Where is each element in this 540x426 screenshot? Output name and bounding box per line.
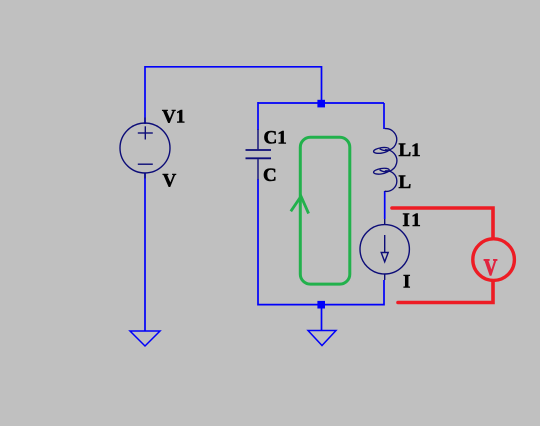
svg-text:C: C <box>263 165 277 186</box>
wire: loop rectangle left side lower (from capacitor) <box>258 179 384 305</box>
svg-text:C1: C1 <box>264 128 287 149</box>
svg-text:I: I <box>403 272 410 293</box>
green current loop annotation <box>300 137 350 284</box>
voltmeter circle <box>473 239 515 281</box>
wire: V1 bottom to ground <box>144 173 146 331</box>
current source I1 <box>360 219 409 280</box>
svg-text:I1: I1 <box>402 210 422 231</box>
wire: loop rectangle bottom side handled above; right side upper <box>383 103 385 129</box>
wire: center node to ground <box>321 304 323 330</box>
green loop arrow (pointing up) <box>291 196 309 213</box>
wire: loop rectangle top side <box>258 102 384 104</box>
red probe wire bottom (voltmeter to node I1 bottom) <box>398 280 493 303</box>
svg-text:V1: V1 <box>162 107 185 128</box>
svg-text:L1: L1 <box>399 140 421 161</box>
wire: inductor to current source <box>384 191 386 219</box>
capacitor C1 <box>246 130 272 180</box>
node B junction (bottom) <box>317 301 325 309</box>
wire: loop rectangle left side upper (to capacitor) <box>257 102 259 130</box>
svg-text:L: L <box>399 172 412 193</box>
svg-text:V: V <box>484 255 498 281</box>
wire: V1 top to node A (top rail) <box>145 67 322 124</box>
voltage source V1 <box>120 118 170 179</box>
node A junction (top) <box>317 100 325 108</box>
inductor L1 <box>373 129 397 192</box>
red probe wire top (node I1 top to voltmeter) <box>392 208 493 240</box>
ground (center, under node B) <box>308 331 336 346</box>
svg-text:V: V <box>163 170 177 191</box>
ground (left, under V1) <box>130 331 160 346</box>
